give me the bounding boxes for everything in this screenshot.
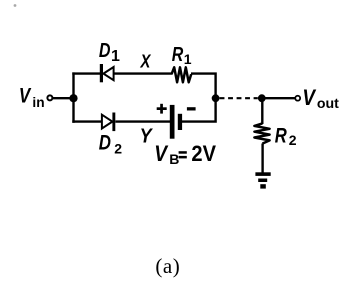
resistor R2 (vertical zigzag) (254, 123, 269, 143)
ground symbol (255, 172, 270, 188)
wire R2 to ground (261, 144, 263, 174)
wire top rail left (node to D1) (72, 72, 100, 74)
diode D1 (cathode bar left, triangle pointing left) (100, 64, 114, 82)
svg-text:out: out (317, 95, 339, 111)
battery VB (long plate +, short plate -) (170, 105, 182, 139)
battery VB plus sign (157, 104, 167, 114)
svg-text:D: D (99, 40, 111, 62)
svg-text:V: V (302, 85, 317, 110)
svg-text:2: 2 (289, 132, 297, 148)
svg-text:1: 1 (111, 48, 120, 65)
wire node to Vout terminal (262, 97, 295, 99)
svg-text:1: 1 (184, 51, 192, 67)
svg-text:R: R (172, 44, 184, 66)
svg-text:2: 2 (114, 140, 122, 156)
svg-text:V: V (19, 84, 32, 107)
wire top rail middle (D1 to R1), node X (114, 72, 172, 74)
wire bottom rail left (node to D2) (72, 120, 101, 122)
battery VB minus sign (187, 107, 196, 110)
svg-text:D: D (99, 132, 111, 155)
label D1 (99, 40, 120, 65)
wire bottom rail middle (D2 to battery), node Y (115, 120, 170, 122)
terminal Vin (open circle) (47, 95, 52, 100)
svg-text:B: B (169, 151, 179, 167)
resistor R1 (horizontal zigzag) (172, 67, 192, 82)
wire bottom rail right (battery to corner, up to node) (182, 98, 216, 121)
svg-text:2V: 2V (191, 141, 216, 166)
node right junction dot (258, 94, 266, 102)
wire node down to R2 (261, 98, 263, 124)
svg-text:R: R (275, 125, 288, 148)
label R1 (172, 44, 192, 67)
wire top rail right (R1 to corner, down to node) (191, 74, 216, 99)
label VB = 2V (154, 141, 216, 167)
svg-text:(a): (a) (155, 254, 180, 278)
svg-text:Y: Y (140, 126, 153, 148)
node Vin junction dot (69, 94, 77, 102)
wire left vertical branch (72, 72, 74, 122)
svg-text:in: in (32, 95, 44, 110)
label Vin (19, 84, 45, 110)
stray speck (14, 4, 17, 7)
wire Vin terminal to node (53, 97, 74, 99)
diode D2 (triangle pointing right, cathode bar right) (102, 113, 115, 132)
svg-text:X: X (140, 52, 152, 72)
label Vout (302, 85, 339, 111)
label R2 (275, 125, 297, 149)
svg-text:V: V (154, 141, 169, 166)
terminal Vout (open circle) (295, 96, 300, 101)
wire dashed between junction nodes (220, 97, 258, 99)
node left junction dot (212, 94, 220, 102)
label D2 (99, 132, 122, 157)
